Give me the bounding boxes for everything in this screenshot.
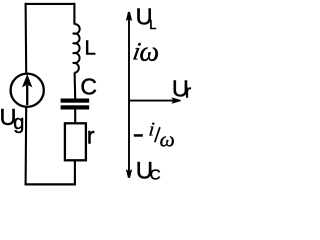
wire resistor to bottom	[74, 160, 76, 185]
arrowhead up UL	[126, 12, 132, 21]
svg-text:g: g	[13, 112, 24, 134]
fraction slash	[155, 127, 160, 142]
svg-text:L: L	[85, 37, 96, 60]
wire right upper	[73, 3, 75, 25]
source Ug circle	[11, 74, 44, 107]
capacitor plate top	[61, 99, 90, 103]
wire bottom	[25, 183, 76, 185]
svg-text:ω: ω	[139, 36, 159, 67]
source arrow shaft	[26, 85, 28, 105]
phasor vertical axis	[128, 19, 130, 171]
wire coil to capacitor	[74, 73, 77, 99]
wire top	[25, 3, 76, 5]
wire capacitor to resistor	[74, 109, 76, 123]
svg-text:ω: ω	[160, 127, 175, 151]
svg-text:C: C	[150, 166, 161, 183]
svg-text:C: C	[80, 74, 97, 100]
phasor horizontal axis	[129, 100, 174, 102]
svg-text:r: r	[185, 80, 191, 101]
arrowhead right Ur	[171, 97, 180, 103]
inductor L coil	[73, 24, 79, 73]
capacitor plate bottom	[61, 105, 90, 109]
label minus sign	[134, 134, 143, 137]
wire left upper	[25, 3, 28, 74]
svg-text:L: L	[149, 17, 156, 32]
arrowhead down UC	[126, 169, 132, 178]
wire left lower	[25, 107, 28, 186]
svg-text:r: r	[87, 123, 95, 149]
source arrow head	[22, 74, 32, 87]
resistor r box	[65, 123, 86, 160]
